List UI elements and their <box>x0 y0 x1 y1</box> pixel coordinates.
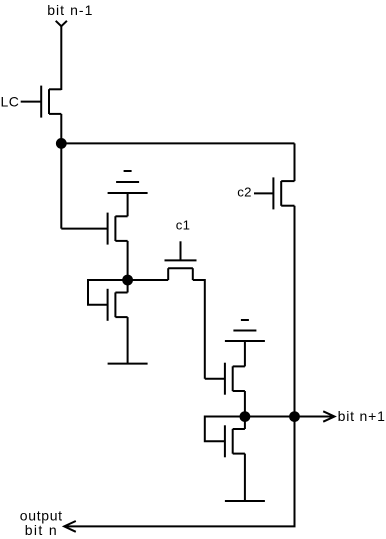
wire: S1 down to T2 drain <box>127 193 129 216</box>
wire: T2 gate lead <box>61 228 107 230</box>
wire: C1 right lead jog <box>193 280 205 379</box>
node B junction dot <box>122 275 133 286</box>
wire: node C to node D to arrow <box>245 416 334 418</box>
svg-text:LC: LC <box>1 94 20 110</box>
transistor LC <box>41 86 61 118</box>
output arrowhead (left) <box>64 521 76 532</box>
ground G2 <box>225 500 265 502</box>
transistor LC gate lead <box>21 101 42 103</box>
wire: bit n-1 down to LC drain <box>60 26 62 90</box>
transistor C1 (horizontal, gate on top) <box>165 260 197 280</box>
svg-text:c2: c2 <box>237 185 252 200</box>
wire: node C down to T5 drain <box>244 417 246 430</box>
transistor T4 <box>225 363 245 395</box>
svg-text:c1: c1 <box>176 218 191 233</box>
wire: T5 source down to ground G2 <box>244 454 246 501</box>
wire: T3 source down to ground G1 <box>127 317 129 364</box>
node D junction dot <box>289 411 300 422</box>
wire: right rail C2 source down to bottom <box>294 206 296 527</box>
supply symbol S1 (inverted ground) <box>108 171 148 193</box>
svg-text:bit n-1: bit n-1 <box>47 2 93 18</box>
input arrowhead (up, open Y) <box>56 21 67 26</box>
node A junction dot <box>56 138 67 149</box>
wire: bottom rail to output arrow <box>65 525 296 527</box>
wire: node A down to T2 gate <box>60 143 62 228</box>
wire: T3 gate loop (node B left, down, to gate) <box>88 280 128 305</box>
svg-text:bit n: bit n <box>25 522 58 538</box>
wire: T4 gate lead <box>205 378 225 380</box>
wire: S2 down to T4 drain <box>244 341 246 366</box>
transistor T5 <box>225 425 245 457</box>
svg-text:bit n+1: bit n+1 <box>338 408 386 424</box>
ground G1 <box>108 363 148 365</box>
transistor T3 <box>108 289 128 321</box>
transistor T2 <box>108 213 128 245</box>
node C junction dot <box>240 411 251 422</box>
wire: c2 gate lead <box>254 192 273 194</box>
supply symbol S2 (inverted ground) <box>225 320 265 341</box>
output arrowhead bit n+1 (right) <box>323 411 334 421</box>
wire: top rail node A to right rail <box>61 142 294 144</box>
wire: LC source down to node A <box>60 114 62 143</box>
wire: top rail down to C2 drain <box>294 143 296 181</box>
wire: C1 left lead to node B <box>128 279 169 281</box>
wire: T4 source down to node C <box>244 391 246 417</box>
wire: node B down to T3 drain <box>127 280 129 293</box>
wire: T2 source down to node B <box>127 241 129 280</box>
wire: T5 gate loop (node C left, down, to gate) <box>205 417 245 442</box>
wire: c1 gate lead <box>180 241 182 260</box>
transistor C2 <box>273 177 294 209</box>
